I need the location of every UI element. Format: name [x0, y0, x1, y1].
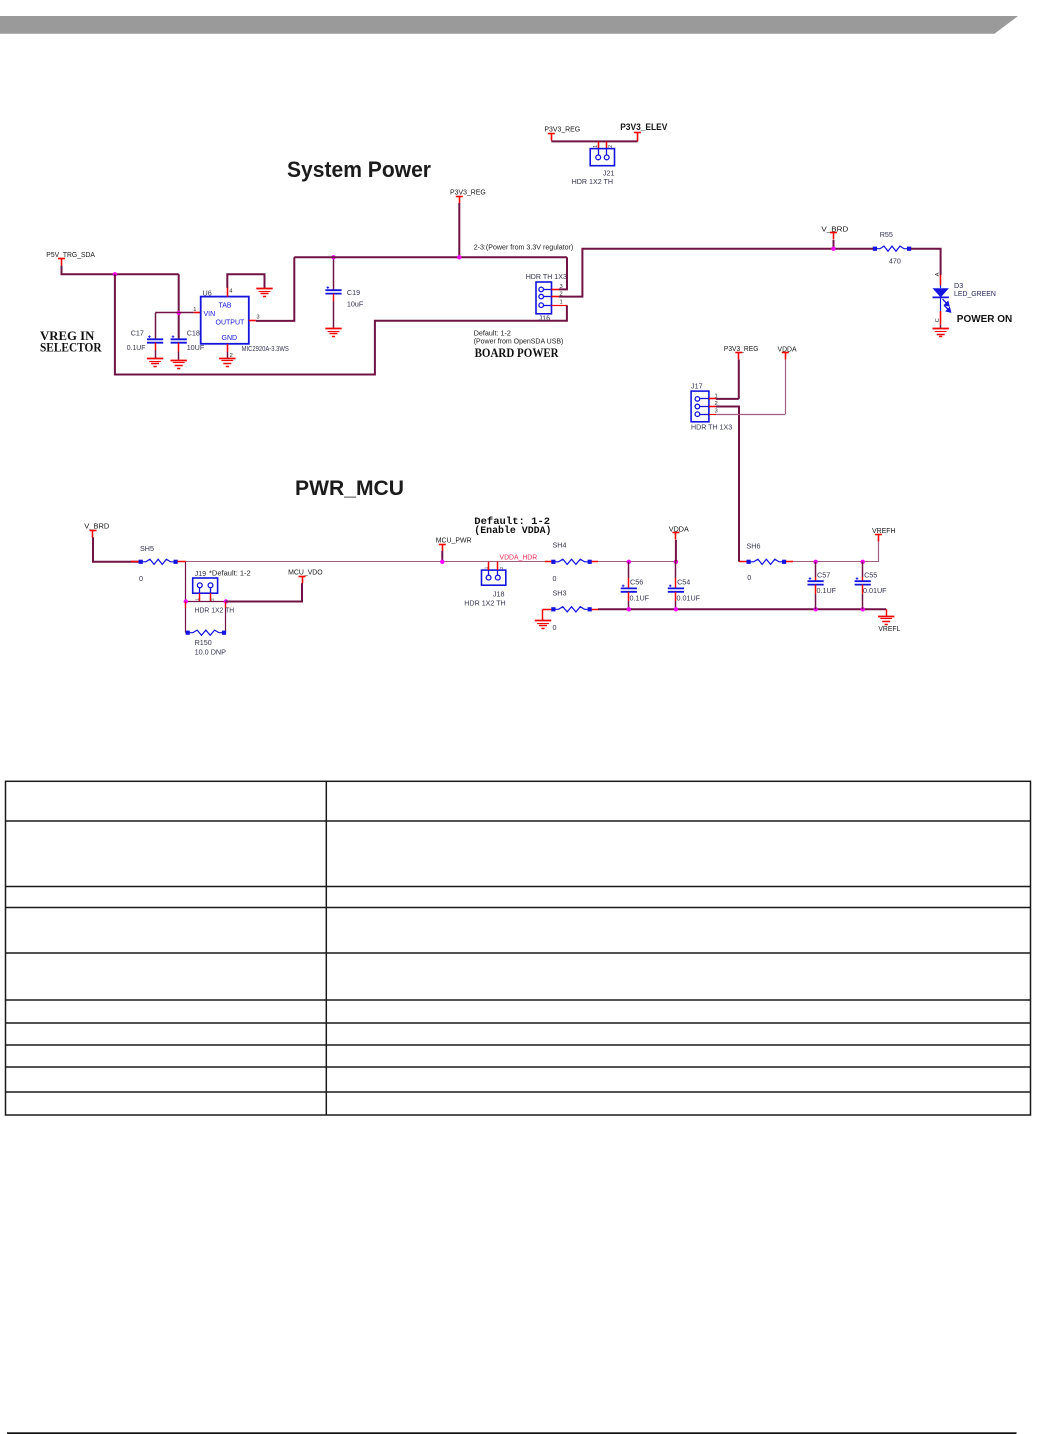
svg-text:0: 0: [553, 623, 557, 632]
svg-text:SH5: SH5: [140, 544, 154, 553]
svg-text:SH3: SH3: [553, 589, 567, 598]
svg-text:0.01UF: 0.01UF: [863, 586, 887, 595]
svg-text:VREFL: VREFL: [878, 624, 900, 633]
svg-text:3: 3: [256, 315, 259, 321]
svg-text:10.0 DNP: 10.0 DNP: [195, 648, 227, 657]
svg-text:P3V3_REG: P3V3_REG: [450, 187, 486, 196]
svg-text:HDR 1X2 TH: HDR 1X2 TH: [195, 606, 235, 615]
svg-text:1: 1: [593, 145, 599, 148]
svg-text:*Default: 1-2: *Default: 1-2: [209, 569, 251, 578]
svg-text:C56: C56: [630, 577, 643, 586]
svg-text:HDR 1X2 TH: HDR 1X2 TH: [572, 177, 613, 186]
svg-text:2: 2: [210, 598, 215, 601]
svg-text:C: C: [935, 318, 941, 322]
svg-text:2: 2: [608, 145, 614, 148]
svg-text:0: 0: [139, 574, 143, 583]
svg-text:1: 1: [195, 598, 200, 601]
svg-text:C19: C19: [347, 288, 360, 297]
svg-text:HDR 1X2 TH: HDR 1X2 TH: [464, 599, 505, 608]
svg-text:A: A: [935, 272, 941, 276]
svg-text:470: 470: [889, 257, 901, 266]
svg-text:0.01UF: 0.01UF: [677, 593, 701, 602]
svg-text:(Enable VDDA): (Enable VDDA): [474, 525, 551, 537]
svg-text:0.1UF: 0.1UF: [127, 343, 146, 352]
svg-text:C18: C18: [187, 329, 200, 338]
svg-text:MIC2920A-3.3WS: MIC2920A-3.3WS: [242, 344, 289, 353]
svg-text:V_BRD: V_BRD: [84, 522, 109, 531]
svg-text:OUTPUT: OUTPUT: [216, 319, 246, 326]
svg-text:BOARD POWER: BOARD POWER: [475, 345, 560, 360]
svg-text:0.1UF: 0.1UF: [817, 586, 837, 595]
svg-text:VDDA_HDR: VDDA_HDR: [500, 553, 538, 562]
svg-text:VREFH: VREFH: [872, 526, 896, 535]
svg-text:TAB: TAB: [219, 302, 232, 309]
svg-text:SH6: SH6: [747, 542, 761, 551]
svg-text:1: 1: [560, 300, 563, 306]
svg-text:C55: C55: [864, 571, 877, 580]
svg-text:J19: J19: [195, 569, 207, 578]
svg-text:J18: J18: [493, 589, 505, 598]
svg-text:P3V3_REG: P3V3_REG: [544, 125, 580, 134]
svg-text:MCU_PWR: MCU_PWR: [436, 535, 472, 544]
svg-text:MCU_VDO: MCU_VDO: [288, 568, 323, 577]
svg-text:C57: C57: [817, 571, 830, 580]
svg-text:POWER ON: POWER ON: [957, 314, 1012, 325]
svg-text:LED_GREEN: LED_GREEN: [954, 289, 996, 298]
svg-text:R150: R150: [195, 638, 212, 647]
svg-text:P5V_TRG_SDA: P5V_TRG_SDA: [46, 250, 95, 259]
svg-text:J16: J16: [539, 313, 551, 322]
svg-text:2-3:(Power from 3.3V regulator: 2-3:(Power from 3.3V regulator): [474, 243, 574, 252]
svg-text:J17: J17: [691, 382, 703, 391]
svg-text:VIN: VIN: [204, 311, 216, 318]
svg-text:0.1UF: 0.1UF: [630, 593, 650, 602]
svg-text:HDR TH 1X3: HDR TH 1X3: [691, 422, 732, 431]
svg-text:P3V3_ELEV: P3V3_ELEV: [620, 122, 667, 132]
svg-text:0: 0: [553, 574, 557, 583]
svg-text:U6: U6: [203, 289, 212, 298]
svg-text:SH4: SH4: [553, 541, 567, 550]
svg-text:PWR_MCU: PWR_MCU: [295, 477, 404, 500]
svg-text:HDR TH 1X3: HDR TH 1X3: [526, 272, 567, 281]
svg-text:C54: C54: [677, 577, 690, 586]
svg-text:System Power: System Power: [287, 157, 431, 182]
svg-text:C17: C17: [131, 329, 144, 338]
svg-text:GND: GND: [222, 335, 238, 342]
svg-text:10uF: 10uF: [347, 299, 364, 308]
svg-text:SELECTOR: SELECTOR: [40, 340, 102, 354]
svg-text:R55: R55: [880, 230, 893, 239]
svg-text:0: 0: [747, 573, 751, 582]
svg-text:3: 3: [715, 409, 718, 415]
svg-text:1: 1: [483, 566, 488, 569]
svg-text:1: 1: [193, 307, 196, 313]
svg-text:2: 2: [499, 566, 504, 569]
